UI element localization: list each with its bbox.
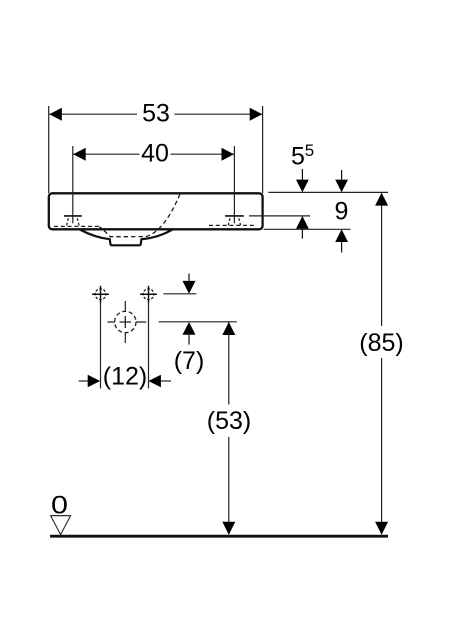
dimension (85) top arrow [375,193,388,206]
dimension (53) vertical line [228,322,230,534]
left tap hole cross [64,146,82,223]
top edge reference line [268,191,388,193]
tap level leader line right [249,215,310,217]
left fixing hole symbol [92,286,109,303]
basin interior hidden contour (dashed) [100,194,181,237]
svg-text:9: 9 [335,198,349,226]
dimension 5.5 bottom arrow [296,216,309,239]
bottom edge reference line [264,228,351,230]
drain symbol (dashed circle with cross) [108,301,147,343]
dimension (53) top arrow [222,322,235,335]
dimension (12) [79,363,171,391]
dimension (85) label [359,329,403,357]
fixing hole extension line left [100,303,102,389]
dimension (53) bottom arrow [222,522,235,535]
floor line [50,535,388,538]
svg-text:(7): (7) [174,347,205,375]
datum triangle [51,516,71,535]
svg-text:53: 53 [142,100,170,128]
svg-text:(12): (12) [103,363,147,391]
svg-text:5: 5 [305,141,314,160]
dimension 5.5 top arrow [296,169,309,192]
drain level line [159,321,237,323]
dimension (85) vertical line [381,195,383,535]
dimension 9 label [335,198,349,226]
hidden deck edge left (dashed) [54,225,100,227]
dimension 9 bottom arrow [335,229,348,252]
dimension (7) label [174,347,205,375]
svg-text:(53): (53) [207,407,251,435]
washbasin outline [49,193,263,229]
fixing hole level line [163,293,196,295]
right fixing hole symbol [140,286,157,303]
dimension 5.5 (label 5 with sup 5) [291,141,314,171]
dimension 7 top arrow [183,274,196,294]
basin bowl underside [80,229,174,245]
dimension 9 top arrow [335,170,348,192]
dimension 53 extension line left [48,106,50,193]
dimension 40 (tap distance) [73,140,234,168]
fixing hole extension line right [148,303,150,389]
datum label 0 [51,491,68,519]
right tap hole hidden cone (dashed) [228,218,241,226]
dimension 53 extension line right [262,106,264,193]
dimension (85) bottom arrow [375,522,388,535]
svg-text:40: 40 [141,140,169,168]
right tap hole cross [225,146,244,223]
svg-text:5: 5 [291,142,305,170]
dimension 53 (width) [49,100,262,128]
svg-text:(85): (85) [359,329,403,357]
dimension (53) label [207,407,251,435]
left tap hole hidden cone (dashed) [67,218,80,226]
dimension 7 bottom arrow [183,322,196,345]
hidden deck edge right (dashed) [209,224,257,226]
svg-text:0: 0 [51,491,68,519]
